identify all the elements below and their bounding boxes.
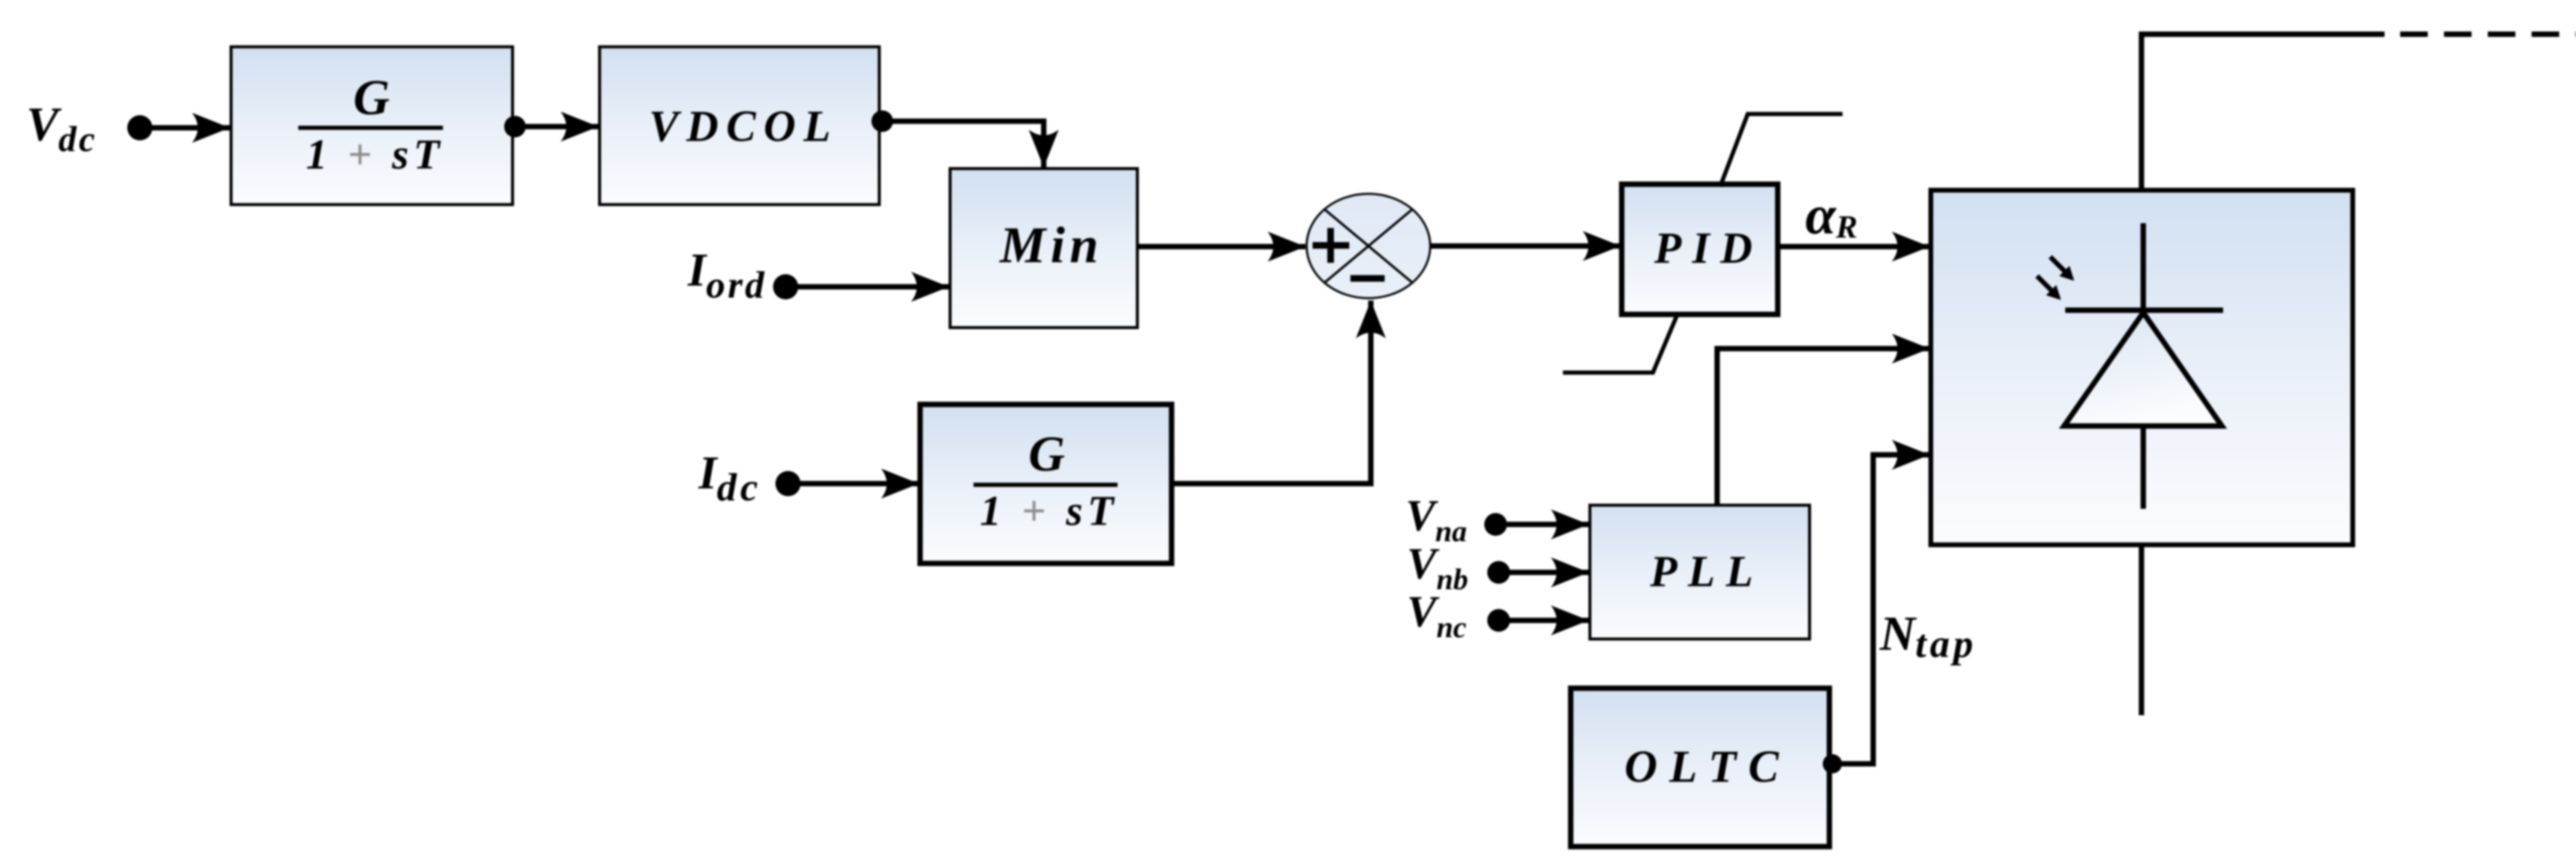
node Vdc terminal dot xyxy=(127,115,152,140)
PID lower saturation slash xyxy=(1563,313,1678,373)
block G/(1+sT) first-order filter (Vdc) xyxy=(231,47,513,205)
wire PLL to converter xyxy=(1717,349,1930,505)
wire Iord to Min xyxy=(786,284,949,290)
light trigger arrow 2 xyxy=(2050,257,2074,281)
wire Vna to PLL xyxy=(1496,522,1589,527)
wire OLTC to converter (Ntap) xyxy=(1832,455,1930,764)
junction dot at VDCOL output xyxy=(871,110,893,132)
wire Idc input arrow xyxy=(788,481,919,487)
wire Vnc to PLL xyxy=(1499,618,1589,623)
block VDCOL xyxy=(600,47,879,205)
wire PID to converter (alpha_R) xyxy=(1778,244,1930,250)
svg-text:PLL: PLL xyxy=(1649,547,1764,596)
node Idc terminal dot xyxy=(775,471,801,496)
svg-text:Vdc: Vdc xyxy=(26,98,97,159)
node Vna terminal dot xyxy=(1484,513,1507,536)
wire VDCOL to Min xyxy=(882,121,1044,167)
node Vnb terminal dot xyxy=(1487,561,1510,584)
node Iord terminal dot xyxy=(773,274,798,299)
svg-text:VDCOL: VDCOL xyxy=(649,102,838,151)
svg-text:Idc: Idc xyxy=(698,446,762,509)
PID upper saturation slash xyxy=(1720,114,1843,187)
svg-text:1 + sT: 1 + sT xyxy=(306,131,444,178)
junction dot at OLTC output xyxy=(1823,754,1842,773)
wire Vnb to PLL xyxy=(1499,570,1589,575)
block PID xyxy=(1622,184,1778,314)
wire filter to VDCOL xyxy=(515,124,598,130)
block G/(1+sT) first-order filter (Idc) xyxy=(920,404,1172,563)
wire converter bottom lead xyxy=(2139,545,2144,715)
block OLTC xyxy=(1571,688,1829,847)
node Ntap label xyxy=(1879,606,1977,666)
thyristor cathode bar xyxy=(2065,308,2223,313)
node Iord label xyxy=(687,244,766,306)
svg-text:1 + sT: 1 + sT xyxy=(980,488,1118,535)
block Min xyxy=(950,169,1137,328)
wire summing junction to PID xyxy=(1430,244,1621,249)
node Vnb label xyxy=(1407,539,1468,596)
summing junction minus sign xyxy=(1350,275,1385,282)
node Vdc label xyxy=(26,98,97,159)
wire Min to summing junction xyxy=(1137,244,1305,250)
svg-text:Ntap: Ntap xyxy=(1879,606,1977,666)
light trigger arrow 1 xyxy=(2037,276,2061,300)
summing junction plus sign xyxy=(1313,228,1349,263)
wire Idc filter to summing junction xyxy=(1172,301,1371,484)
block converter (light-triggered thyristor valve) xyxy=(1931,190,2353,545)
block PLL xyxy=(1590,505,1810,639)
svg-text:G: G xyxy=(354,70,390,125)
thyristor triangle xyxy=(2064,313,2222,426)
svg-text:PID: PID xyxy=(1654,224,1763,273)
summing junction circle xyxy=(1307,194,1430,298)
svg-text:Iord: Iord xyxy=(687,244,766,306)
node Vnc label xyxy=(1407,587,1466,644)
svg-text:Vnc: Vnc xyxy=(1407,587,1466,644)
node Vnc terminal dot xyxy=(1487,609,1510,632)
svg-text:OLTC: OLTC xyxy=(1624,742,1790,792)
svg-text:Min: Min xyxy=(999,216,1103,274)
node alpha_R label xyxy=(1805,184,1858,245)
wire dashed continuation top right xyxy=(2400,32,2576,37)
svg-text:G: G xyxy=(1029,426,1065,482)
junction dot at filter output xyxy=(504,116,526,137)
thyristor vertical lead xyxy=(2141,223,2146,509)
node Idc label xyxy=(698,446,762,509)
wire converter top lead xyxy=(2141,34,2385,190)
svg-text:αR: αR xyxy=(1805,184,1858,245)
wire Vdc input arrow xyxy=(140,125,230,131)
node Vna label xyxy=(1406,491,1467,548)
